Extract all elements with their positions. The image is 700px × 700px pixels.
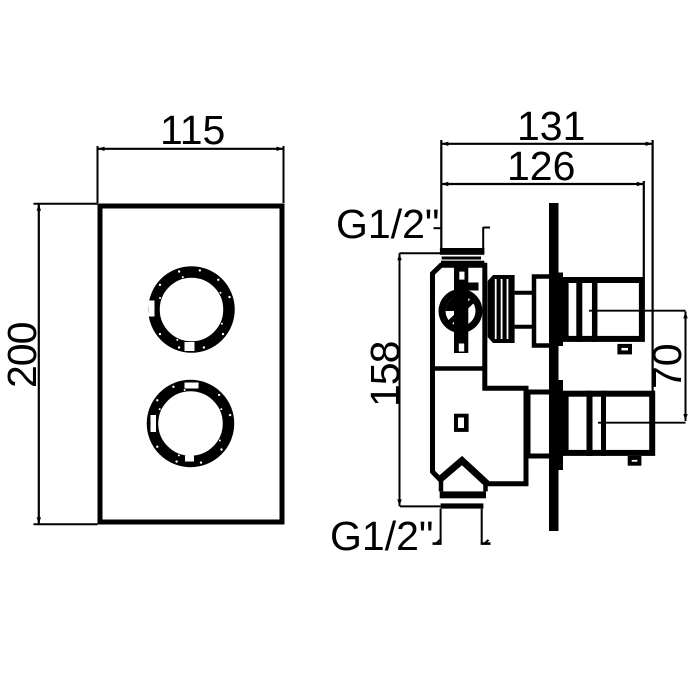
svg-text:115: 115 bbox=[160, 107, 225, 153]
svg-text:70: 70 bbox=[644, 343, 690, 389]
svg-text:126: 126 bbox=[507, 143, 575, 189]
svg-text:G1/2": G1/2" bbox=[330, 513, 433, 559]
svg-text:200: 200 bbox=[0, 322, 45, 388]
svg-text:G1/2": G1/2" bbox=[336, 201, 439, 247]
svg-text:158: 158 bbox=[362, 341, 408, 407]
